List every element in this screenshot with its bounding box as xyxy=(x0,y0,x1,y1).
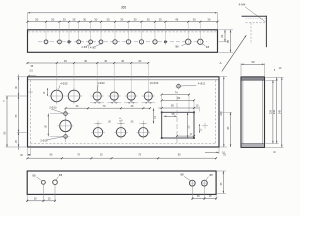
strip hole 8 xyxy=(126,40,130,44)
strip right edge extension line xyxy=(217,13,219,29)
svg-text:30: 30 xyxy=(83,17,86,21)
corner bracket top flange xyxy=(242,15,268,17)
bottom strip outline xyxy=(27,171,216,194)
strip hole 1 xyxy=(44,40,48,44)
strip hole 7 xyxy=(113,40,117,44)
svg-text:Φ8: Φ8 xyxy=(180,173,184,177)
main plate top lip line xyxy=(28,79,219,81)
strip leader 2-phi5 xyxy=(81,44,90,49)
mid small hole lower xyxy=(62,135,70,139)
strip overall dimension label 365 xyxy=(121,6,127,10)
plate right dim 240 xyxy=(219,77,224,148)
side view dim line 1 xyxy=(269,80,273,143)
bottom strip top dimension line xyxy=(27,157,218,159)
svg-text:50: 50 xyxy=(251,60,255,64)
svg-text:365: 365 xyxy=(121,6,127,10)
svg-text:Φ8: Φ8 xyxy=(209,173,213,177)
bottom leader phi8 xyxy=(56,173,63,180)
plate top-row hole 3 xyxy=(91,89,104,102)
svg-text:50: 50 xyxy=(35,17,38,21)
strip leader phi8 right xyxy=(202,44,210,50)
plate right dim 85 xyxy=(220,112,232,147)
plate bottom-row hole 3 xyxy=(136,121,150,140)
plate top-row hole 5 xyxy=(125,89,138,102)
cutout inner dim 55 xyxy=(187,112,191,138)
bottom right dim line xyxy=(191,198,217,200)
label 4-phi20 xyxy=(97,81,105,91)
strip dim 45 label xyxy=(226,40,230,43)
plate top-row hole 2 xyxy=(66,88,83,105)
bottom leader phi5 xyxy=(32,173,42,180)
label 4-phi13 xyxy=(181,81,206,86)
corner bracket dashed thickness line horizontal xyxy=(246,22,267,24)
side view small dim label bottom xyxy=(273,152,276,154)
svg-text:30: 30 xyxy=(107,17,110,21)
main plate inner dashed left xyxy=(29,80,31,144)
svg-text:4-Φ20: 4-Φ20 xyxy=(97,81,105,85)
bottom leader phi10 left xyxy=(180,173,191,181)
svg-text:Φ5: Φ5 xyxy=(32,173,36,177)
strip hole 9 xyxy=(139,40,143,44)
svg-text:30: 30 xyxy=(121,59,124,63)
main plate outline xyxy=(28,77,220,147)
corner bracket dotted underside line xyxy=(246,18,266,20)
label 10-phi16 xyxy=(150,81,159,85)
tiny vertical dim at x120 xyxy=(120,117,124,122)
side view small dim label top xyxy=(274,68,282,72)
bottom left dim labels xyxy=(34,197,51,200)
corner bracket leader xyxy=(245,7,265,22)
label 4-phi25 xyxy=(59,82,69,90)
rectangular cutout xyxy=(161,111,195,139)
svg-text:Φ8: Φ8 xyxy=(59,173,63,177)
svg-text:240: 240 xyxy=(219,111,223,116)
cutout dim row 74 xyxy=(161,91,190,95)
bottom strip lower ext lines xyxy=(27,185,216,202)
dim 15 right of bottom row xyxy=(153,108,157,123)
dim row inside plate xyxy=(65,104,152,109)
bottom row dim marks xyxy=(94,121,147,124)
svg-text:45: 45 xyxy=(64,59,67,63)
strip leader 4-phi5 xyxy=(88,44,101,50)
cutout vertical centerline xyxy=(176,96,178,145)
svg-text:4-Φ25: 4-Φ25 xyxy=(60,82,68,86)
side view dim line 2 xyxy=(273,77,277,143)
plate bottom-left small dim xyxy=(20,145,30,157)
plate top-row hole 4 xyxy=(108,89,121,102)
svg-text:30: 30 xyxy=(94,17,97,21)
strip left edge extension line xyxy=(27,13,29,29)
corner bracket right flange xyxy=(265,16,267,47)
bottom strip hole 3 xyxy=(189,180,196,187)
top strip bend line (dashed) xyxy=(28,31,217,33)
svg-text:30: 30 xyxy=(207,17,210,21)
view label A xyxy=(220,61,223,65)
corner bracket dashed thickness line vertical xyxy=(250,23,252,44)
side view top flange band xyxy=(241,77,264,80)
svg-text:Φ8: Φ8 xyxy=(206,46,210,49)
plate bottom-row hole 1 xyxy=(91,121,105,140)
strip hole 3 xyxy=(68,41,70,43)
bottom right dim labels xyxy=(197,195,212,198)
plate top extension lines xyxy=(57,64,149,90)
svg-text:4-Φ5: 4-Φ5 xyxy=(90,47,96,50)
side view bottom flange band xyxy=(241,144,264,147)
plate top-row hole 6 xyxy=(142,89,155,102)
svg-text:30: 30 xyxy=(147,17,150,21)
plate top dimension line xyxy=(27,62,150,64)
svg-text:45: 45 xyxy=(226,40,230,43)
svg-text:30: 30 xyxy=(193,17,196,21)
bottom strip hole 4 xyxy=(201,180,208,187)
side view right ext lines xyxy=(265,77,283,147)
svg-text:245: 245 xyxy=(278,109,281,114)
svg-text:35: 35 xyxy=(63,17,66,21)
cutout dim row 85 xyxy=(159,105,200,109)
strip leader phi8 left xyxy=(175,44,186,49)
svg-text:45: 45 xyxy=(175,17,178,21)
bottom strip top dimension labels xyxy=(50,153,227,156)
plate left chained dim xyxy=(15,75,19,151)
top strip centerline xyxy=(38,41,207,43)
side view dim 50 xyxy=(241,64,265,66)
plate bottom-row hole 2 xyxy=(114,121,128,140)
mid cluster vertical centerline xyxy=(65,108,67,142)
top strip plate outline xyxy=(28,30,218,53)
leader 2-phi10 lower xyxy=(40,137,63,143)
strip hole 10 xyxy=(153,40,157,44)
strip dim 45 line xyxy=(230,30,232,53)
svg-text:20: 20 xyxy=(220,34,224,37)
svg-text:4-Φ13: 4-Φ13 xyxy=(198,81,206,85)
strip hole 6 xyxy=(99,40,103,44)
bottom strip right ext lines xyxy=(217,171,226,194)
plate top dimension labels xyxy=(30,59,141,68)
view direction arrow A xyxy=(222,35,247,72)
plate right ext lines xyxy=(220,77,227,148)
svg-text:35: 35 xyxy=(72,17,75,21)
bottom left dim line xyxy=(26,200,56,202)
plate top-row hole 1 xyxy=(49,88,66,105)
main plate inner dashed bottom xyxy=(30,143,215,145)
strip hole extension lines xyxy=(46,23,200,46)
svg-text:230: 230 xyxy=(269,109,272,114)
hole diameter dims under top row xyxy=(90,99,155,103)
side view dim 50 label xyxy=(251,60,255,64)
svg-text:25: 25 xyxy=(159,17,162,21)
svg-text:30: 30 xyxy=(84,59,87,63)
svg-text:2-Φ5: 2-Φ5 xyxy=(81,46,87,49)
corner bracket label 4-M4 xyxy=(239,3,246,7)
strip hole 12 xyxy=(186,39,191,44)
cutout right small dim xyxy=(199,124,203,133)
strip hole 4 xyxy=(77,40,81,44)
dim 16 left of hole xyxy=(44,88,48,96)
main plate inner dashed right xyxy=(215,80,217,144)
svg-text:50: 50 xyxy=(51,17,54,21)
strip hole 5 xyxy=(89,40,93,44)
strip overall dimension line xyxy=(28,12,218,14)
mid cluster dim xyxy=(45,114,49,137)
cutout inner bottom dim xyxy=(176,134,195,137)
cutout right cross xyxy=(202,123,208,129)
cutout ext lines xyxy=(162,96,200,112)
plate left dim 60 xyxy=(3,96,7,147)
strip spacing dimension line xyxy=(27,21,219,23)
strip hole 13 xyxy=(198,39,203,44)
svg-text:40: 40 xyxy=(104,59,107,63)
svg-text:2-Φ10: 2-Φ10 xyxy=(40,138,48,142)
leader 2-phi10 upper xyxy=(49,105,63,113)
mid cluster ext lines xyxy=(50,114,64,137)
cutout inner dim 58 xyxy=(164,113,177,117)
strip dim 20 line xyxy=(224,30,226,42)
svg-text:240: 240 xyxy=(273,109,276,114)
bottom strip hole 1 xyxy=(42,181,46,185)
bottom strip right dim 35 xyxy=(220,171,224,194)
side view outline xyxy=(241,77,265,147)
side view top ext lines xyxy=(241,63,265,76)
strip hole 2 xyxy=(58,40,62,44)
svg-text:2-Φ10: 2-Φ10 xyxy=(49,105,57,109)
mid large hole xyxy=(58,120,74,132)
svg-text:10-Φ16: 10-Φ16 xyxy=(150,81,159,85)
strip dim 20 label xyxy=(220,34,224,37)
bottom strip hole 2 xyxy=(53,180,58,185)
svg-text:4-M4: 4-M4 xyxy=(239,3,246,7)
bottom leader phi10 right xyxy=(206,173,214,181)
svg-text:30: 30 xyxy=(138,59,141,63)
strip spacing dimension labels xyxy=(35,17,211,21)
plate small cross mark xyxy=(28,90,33,95)
small hole top right xyxy=(176,83,182,89)
strip hole 11 xyxy=(164,41,166,43)
plate top-left small dim xyxy=(28,70,36,76)
side view dim line 3 xyxy=(278,77,282,147)
mid small hole upper xyxy=(62,112,70,116)
svg-text:30: 30 xyxy=(134,17,137,21)
strip right extension lines xyxy=(219,30,234,53)
cutout dim row 96 xyxy=(161,97,195,101)
plate bottom right dim 10 xyxy=(205,148,225,155)
plate left ext lines xyxy=(6,77,27,147)
svg-text:30: 30 xyxy=(120,17,123,21)
side view inner wall left xyxy=(242,80,244,143)
side view inner wall right xyxy=(262,80,264,143)
